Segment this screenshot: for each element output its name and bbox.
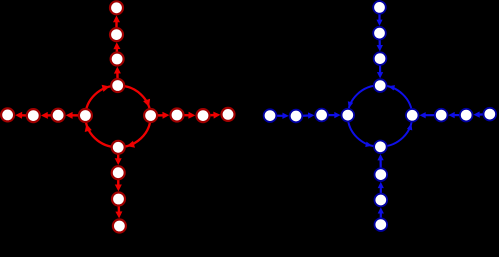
red node left arm 1 [1, 108, 14, 121]
red bottom arm arrow 1 (outward) [117, 147, 119, 159]
blue bottom arm arrow 3 (inward) [380, 212, 382, 224]
red node left arm 3 [52, 109, 65, 122]
red node top arm 1 [110, 1, 123, 14]
blue node left arm 1 [264, 109, 277, 122]
red node bottom arm 3 [112, 166, 125, 179]
red node bottom arm 2 [112, 193, 125, 206]
red node top arm 2 [110, 28, 123, 41]
red node bottom arm 1 [113, 220, 126, 233]
red node right arm 3 [171, 109, 184, 122]
red node right arm 1 [222, 108, 235, 121]
left diagram: red source cycle graph [1, 1, 234, 232]
red bottom arm arrow 2 (outward) [117, 173, 120, 186]
red right arm arrow 2 (outward) [177, 114, 190, 117]
red ring arrow top-to-right [143, 99, 150, 107]
blue left arm arrow 1 (inward) [322, 114, 336, 116]
red top arm arrow 3 (outward) [115, 21, 117, 34]
blue node right arm 2 [460, 109, 473, 122]
blue node ring top [374, 79, 387, 92]
blue left arm arrow 3 (inward) [270, 114, 284, 116]
blue node top arm 3 [374, 52, 387, 65]
red left arm arrow 2 (outward) [47, 114, 59, 117]
red left arm arrow 3 (outward) [21, 114, 33, 117]
blue right arm arrow 2 (inward) [454, 114, 467, 116]
red node ring right [144, 109, 157, 122]
blue node ring left [342, 109, 355, 122]
blue node left arm 2 [290, 110, 303, 123]
red ring circle [85, 86, 150, 148]
blue ring arrow left-to-bottom [365, 142, 372, 147]
blue node bottom arm 2 [375, 194, 388, 207]
blue node bottom arm 3 [375, 168, 388, 181]
red node ring bottom [112, 141, 125, 154]
red node right arm 2 [197, 109, 210, 122]
blue node ring bottom [374, 141, 387, 154]
blue node top arm 1 [373, 1, 386, 14]
blue bottom arm arrow 2 (inward) [380, 187, 382, 200]
blue ring arrow right-to-top [388, 85, 395, 90]
blue right arm arrow 1 (inward) [425, 114, 442, 116]
blue top arm arrow 3 (inward) [378, 7, 380, 20]
red ring arrow right-to-bottom [127, 141, 135, 148]
blue right arm arrow 3 (inward) [479, 113, 490, 116]
red node ring left [79, 109, 92, 122]
blue node right arm 1 [484, 108, 497, 121]
blue node top arm 2 [373, 27, 386, 40]
red ring arrow left-to-top [102, 85, 110, 92]
red right arm arrow 3 (outward) [203, 114, 215, 117]
blue top arm arrow 2 (inward) [378, 33, 380, 46]
red node ring top [111, 79, 124, 92]
red node top arm 3 [111, 53, 124, 66]
right diagram: blue sink cycle graph [264, 1, 496, 231]
red ring arrow bottom-to-left [85, 124, 92, 132]
red bottom arm arrow 3 (outward) [117, 199, 120, 213]
blue ring arrow bottom-to-right [407, 123, 412, 130]
blue bottom arm arrow 1 (inward) [380, 159, 382, 175]
blue ring circle [348, 85, 412, 146]
red top arm arrow 1 (outward) [116, 72, 119, 85]
blue node right arm 3 [435, 109, 448, 122]
blue node left arm 3 [315, 109, 328, 122]
blue top arm arrow 1 (inward) [379, 59, 381, 74]
blue node bottom arm 1 [375, 218, 388, 231]
red top arm arrow 2 (outward) [116, 48, 119, 59]
red node left arm 2 [27, 109, 40, 122]
blue ring arrow top-to-left [348, 101, 353, 108]
red right arm arrow 1 (outward) [151, 114, 164, 117]
red left arm arrow 1 (outward) [71, 114, 85, 117]
blue left arm arrow 2 (inward) [296, 114, 309, 117]
blue node ring right [406, 109, 419, 122]
